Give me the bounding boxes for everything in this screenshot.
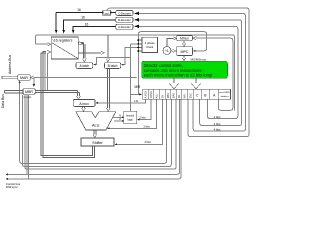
svg-text:R/W sync: R/W sync xyxy=(6,185,19,189)
wire incrementer to Mmux xyxy=(167,38,174,46)
A latch xyxy=(76,63,93,69)
svg-text:MBR: MBR xyxy=(25,90,33,94)
svg-text:MS/MSmux: MS/MSmux xyxy=(191,57,207,61)
svg-text:logic: logic xyxy=(128,117,134,121)
svg-text:A-Decoder: A-Decoder xyxy=(118,25,131,29)
svg-text:N: N xyxy=(119,114,121,118)
wire clock phase to B latch xyxy=(122,47,137,64)
C-decoder xyxy=(116,10,133,15)
control store note green box xyxy=(142,61,228,78)
wire ENC loop MIR to and-gate xyxy=(107,8,250,137)
wire control store to MIR left arrow xyxy=(173,78,175,83)
svg-text:Shifter: Shifter xyxy=(92,141,103,145)
wire control bus 1 xyxy=(6,99,179,174)
and gate box xyxy=(111,12,116,14)
svg-text:2 bits: 2 bits xyxy=(145,140,152,144)
wire SH field to shifter, label 2 bits xyxy=(115,99,162,144)
svg-text:RD: RD xyxy=(178,95,181,99)
wire MBR to Amux xyxy=(35,90,78,92)
svg-text:16: 16 xyxy=(77,8,81,12)
wire Mmux to MPC xyxy=(183,41,185,44)
svg-text:MAR: MAR xyxy=(20,76,28,80)
wire C field loop MIR to C-decoder, label 4 bits xyxy=(135,13,246,131)
wire C bus branch down xyxy=(44,54,46,92)
svg-text:MIR: MIR xyxy=(135,85,142,89)
svg-text:B-Decoder: B-Decoder xyxy=(118,18,131,22)
clock 4 phase xyxy=(142,37,158,52)
wire ALU field to ALU, label 2 bits xyxy=(108,99,157,128)
svg-text:4 bits: 4 bits xyxy=(214,122,221,126)
wire control bus 2 xyxy=(6,99,181,179)
svg-text:MAR: MAR xyxy=(173,93,176,99)
svg-text:ALU: ALU xyxy=(92,123,100,127)
wire control store to MIR right arrow xyxy=(195,78,197,83)
wire ALU to shifter xyxy=(93,130,95,135)
svg-text:\16 registers: \16 registers xyxy=(53,39,73,43)
registers block 16 registers xyxy=(51,37,78,59)
wire MPC to control store, label MS/MSmux xyxy=(183,56,185,58)
wire rail across top xyxy=(35,35,234,111)
wire B field loop MIR to B-decoder, label 4 bits xyxy=(135,20,242,126)
register MBR xyxy=(23,89,35,95)
svg-text:RD WR: RD WR xyxy=(24,97,32,99)
svg-text:WR: WR xyxy=(184,94,187,98)
svg-text:B latch: B latch xyxy=(108,64,118,68)
wire MAR field loop xyxy=(23,95,172,167)
wire ADDR field to Mmux xyxy=(194,38,233,110)
svg-text:MPC: MPC xyxy=(181,50,189,54)
wire A bus registers to A latch xyxy=(78,42,83,44)
svg-text:+1: +1 xyxy=(165,49,169,53)
shifter xyxy=(81,138,114,146)
data bus xyxy=(5,90,23,92)
svg-text:16: 16 xyxy=(85,23,89,27)
svg-text:A latch: A latch xyxy=(80,64,90,68)
wire B latch to ALU xyxy=(106,68,108,108)
wire RD field loop xyxy=(25,95,176,169)
wire MBR field loop xyxy=(20,83,167,163)
register MAR xyxy=(18,75,30,81)
wire COND field to branch logic, label 2 bits xyxy=(137,99,151,120)
wire clock phase to A latch xyxy=(94,58,131,65)
svg-text:2 bits: 2 bits xyxy=(144,124,151,128)
svg-text:branch: branch xyxy=(126,113,134,117)
wire A field loop MIR to A-decoder, label 4 bits xyxy=(135,26,238,118)
svg-text:2 bits: 2 bits xyxy=(140,116,147,120)
wire into MAR bottom xyxy=(19,81,21,84)
svg-text:Address Bus: Address Bus xyxy=(8,54,12,74)
svg-text:address: address xyxy=(221,95,230,98)
wire AMUX field to Amux, label 1 bit xyxy=(96,99,145,103)
svg-text:A MUX: A MUX xyxy=(145,90,148,98)
wire N and Z from ALU to branch logic xyxy=(113,116,124,118)
svg-text:COND: COND xyxy=(150,91,153,98)
B-decoder xyxy=(116,17,133,22)
wire Amux to ALU xyxy=(82,106,84,108)
wire C bus shifter loop to registers xyxy=(41,53,93,156)
MPC xyxy=(177,47,193,56)
Mmux xyxy=(177,36,193,41)
svg-text:1 bit: 1 bit xyxy=(134,100,139,103)
wire sequencer outline to MPC xyxy=(138,32,206,95)
svg-text:MBR: MBR xyxy=(167,93,170,99)
svg-text:branch/MPC: branch/MPC xyxy=(219,91,232,94)
svg-text:each micro instruction is 32 b: each micro instruction is 32 bits long! xyxy=(144,73,213,78)
Amux xyxy=(73,100,95,107)
wire to MAR xyxy=(31,76,137,78)
svg-text:16: 16 xyxy=(81,16,85,20)
wire MPC to incrementer xyxy=(174,50,177,52)
branch logic xyxy=(124,111,137,124)
svg-text:C-Decoder: C-Decoder xyxy=(118,11,131,15)
ALU xyxy=(76,112,116,130)
incrementer +1 xyxy=(163,47,171,55)
wire C-select from and-gate to registers, label 16 xyxy=(56,11,102,13)
wire B bus registers to B latch xyxy=(78,52,104,54)
register MIR xyxy=(143,89,231,99)
svg-text:4 bits: 4 bits xyxy=(214,127,221,131)
B latch xyxy=(105,63,121,69)
svg-text:Clock: Clock xyxy=(146,45,154,49)
wire A-select from A-decoder to registers, label 16 xyxy=(73,26,116,31)
wire B-select from B-decoder to registers, label 16 xyxy=(64,20,116,32)
svg-text:ALU: ALU xyxy=(156,93,159,98)
svg-text:Data Bus: Data Bus xyxy=(1,94,5,108)
svg-text:ENC: ENC xyxy=(189,93,192,98)
A-decoder xyxy=(116,24,133,29)
address bus xyxy=(2,75,18,77)
svg-text:Mmux: Mmux xyxy=(180,37,189,41)
svg-text:SH: SH xyxy=(161,95,164,99)
svg-text:4 bits: 4 bits xyxy=(214,115,221,119)
wire clock phase to MIR and branch logic xyxy=(130,44,132,111)
svg-text:A mux: A mux xyxy=(79,102,89,106)
